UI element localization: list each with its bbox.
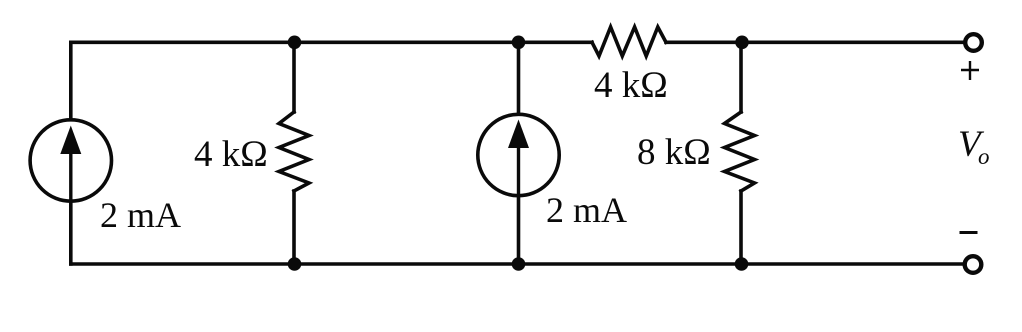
svg-text:o: o [978, 144, 990, 169]
svg-text:2 mA: 2 mA [100, 195, 181, 235]
svg-text:8 kΩ: 8 kΩ [637, 132, 711, 173]
svg-text:4 kΩ: 4 kΩ [194, 134, 268, 175]
svg-text:4 kΩ: 4 kΩ [594, 65, 668, 106]
svg-text:2 mA: 2 mA [546, 190, 627, 230]
